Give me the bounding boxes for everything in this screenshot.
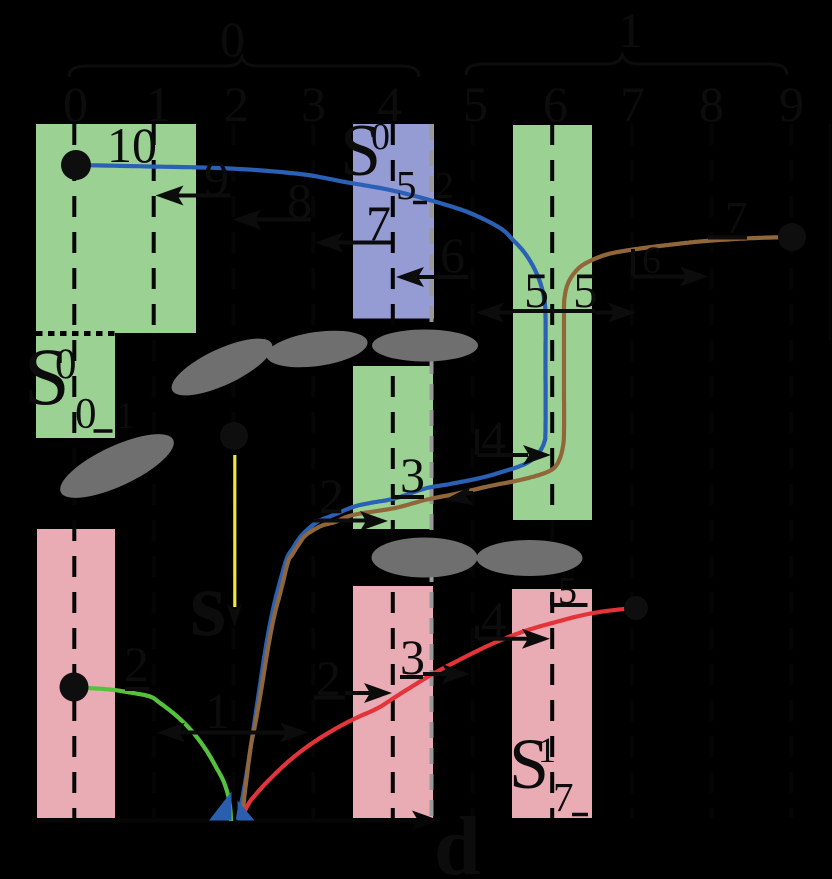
svg-text:9: 9 [779, 76, 804, 132]
svg-text:1: 1 [618, 2, 643, 58]
svg-text:2: 2 [316, 650, 341, 706]
svg-text:1: 1 [538, 730, 556, 770]
svg-text:6: 6 [543, 76, 568, 132]
svg-text:3: 3 [301, 76, 326, 132]
svg-text:6: 6 [642, 240, 661, 282]
svg-text:1: 1 [116, 395, 135, 437]
svg-text:5: 5 [573, 262, 598, 318]
svg-text:0: 0 [63, 76, 88, 132]
svg-text:3: 3 [400, 629, 425, 685]
svg-text:5: 5 [463, 76, 488, 132]
svg-text:2: 2 [224, 76, 249, 132]
svg-text:3: 3 [400, 447, 425, 503]
svg-text:0: 0 [55, 341, 77, 388]
svg-text:2: 2 [319, 468, 344, 524]
svg-text:4: 4 [481, 410, 506, 466]
svg-text:d: d [434, 800, 481, 879]
svg-text:7: 7 [620, 76, 645, 132]
svg-text:1: 1 [205, 683, 230, 739]
svg-text:10: 10 [107, 117, 157, 173]
svg-text:2: 2 [435, 165, 454, 207]
svg-text:0: 0 [220, 11, 245, 67]
svg-text:5: 5 [524, 262, 549, 318]
svg-text:8: 8 [699, 76, 724, 132]
svg-text:s: s [190, 553, 226, 656]
svg-text:5: 5 [558, 570, 577, 612]
svg-text:4: 4 [481, 591, 506, 647]
svg-text:6: 6 [440, 227, 465, 283]
svg-text:2: 2 [124, 636, 149, 692]
svg-text:7: 7 [725, 193, 748, 243]
svg-text:9: 9 [204, 150, 229, 206]
svg-text:8: 8 [287, 173, 312, 229]
svg-text:0: 0 [371, 116, 390, 158]
svg-text:7: 7 [366, 195, 391, 251]
svg-text:7: 7 [553, 774, 574, 820]
svg-text:0: 0 [75, 391, 97, 438]
